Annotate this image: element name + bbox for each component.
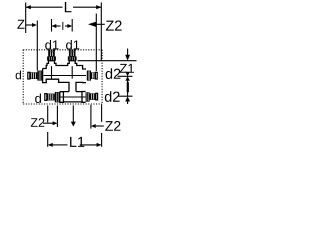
dimension L line [26, 5, 102, 9]
stub2 sleeve [69, 52, 76, 57]
bottom right collar [86, 92, 90, 101]
d label top left [16, 71, 21, 80]
stub1 axis line [51, 66, 53, 78]
bottom left pipe end cap [45, 94, 47, 101]
L1 right extension line [101, 105, 103, 147]
stub2 axis line [71, 66, 73, 78]
Z2 bottom left label [31, 118, 45, 127]
Z1 extension line (stub socket face) [78, 60, 137, 62]
top pipe axis extension line [118, 75, 133, 77]
top left press sleeve [30, 72, 38, 79]
stub2 pipe cap [69, 49, 76, 51]
dimension l line with arrows [52, 24, 73, 28]
dimension L1 line [48, 143, 102, 147]
Z2 bottom right label [105, 121, 120, 131]
top right pipe end cap [95, 72, 97, 79]
fitting main body outline [43, 61, 86, 92]
dimension Z2 bottom left arrow [43, 121, 57, 125]
stub1 pipe cap [48, 49, 55, 51]
d1 right leader line [71, 52, 73, 56]
L right extension line [100, 3, 102, 61]
bottom left press sleeve [47, 94, 55, 101]
insulation box dotted [23, 50, 102, 104]
bottom right press sleeve [90, 93, 96, 100]
top right press sleeve [91, 72, 95, 79]
d1 left leader line [51, 52, 53, 56]
dimension Z2 bottom right arrow [91, 124, 104, 128]
stub2 collar [68, 56, 77, 60]
Z2 top extension line (pipe end) [95, 14, 97, 72]
Z label top left [17, 20, 24, 29]
L1 left extension line [47, 106, 49, 147]
l label [61, 22, 64, 30]
Z1 label [120, 64, 134, 73]
Z1 dimension line with down arrow [125, 49, 130, 61]
L left extension line [25, 3, 27, 34]
top left collar [37, 71, 42, 81]
Z2 bottom right extension line [90, 105, 92, 129]
bottom left collar [55, 92, 60, 102]
bottom pipe axis line [60, 96, 86, 98]
d2 label bottom right [105, 91, 120, 102]
dimension Z arrow [26, 23, 37, 27]
bottom right pipe end cap [96, 93, 98, 100]
d label bottom left [35, 93, 41, 103]
top right collar [87, 71, 91, 81]
Z2 top label [106, 20, 122, 30]
vertical chain line segment [127, 80, 129, 96]
bottom pipe axis extension line [118, 95, 133, 97]
stub1 collar [47, 56, 56, 60]
Z1 bottom arrows at axis [125, 72, 129, 81]
d2 label top right [106, 68, 121, 79]
d1 label right [66, 40, 79, 50]
bottom pipe body [60, 92, 86, 103]
Z2 bottom left extension line [56, 106, 58, 128]
chain bottom up arrow [125, 96, 130, 104]
l right extension line [71, 19, 73, 32]
Z extension line (socket face) [36, 21, 38, 71]
d1 label left [45, 40, 58, 50]
L label [65, 2, 72, 12]
L1 label [70, 137, 84, 147]
l left extension line [51, 19, 53, 32]
dimension Z2 top right arrow [88, 22, 105, 27]
top pipe axis line [44, 75, 87, 77]
stub1 sleeve [48, 52, 55, 57]
stub2 axis extension with down arrow [71, 106, 76, 127]
top left pipe end cap [28, 72, 30, 79]
l label vertical chain [127, 82, 129, 92]
